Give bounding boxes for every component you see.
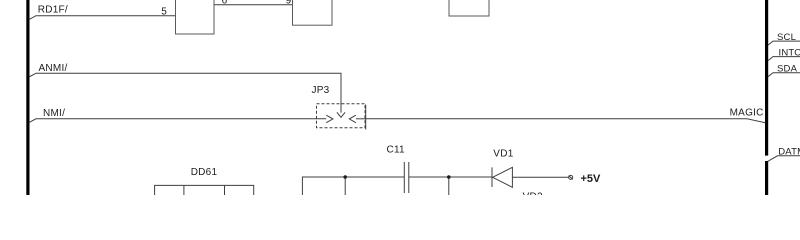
svg-text:MAGIC: MAGIC — [730, 108, 764, 119]
svg-text:+5V: +5V — [581, 173, 602, 185]
svg-text:SDA: SDA — [777, 64, 798, 75]
svg-text:C11: C11 — [387, 144, 406, 155]
svg-text:9: 9 — [286, 0, 292, 7]
svg-text:ANMI/: ANMI/ — [39, 63, 68, 74]
svg-text:NMI/: NMI/ — [43, 108, 65, 119]
svg-text:DATM: DATM — [778, 146, 800, 157]
svg-text:5: 5 — [161, 6, 167, 17]
svg-text:JP3: JP3 — [312, 85, 330, 96]
svg-text:VD2: VD2 — [523, 192, 543, 195]
svg-text:RD1F/: RD1F/ — [38, 4, 68, 15]
svg-text:VD1: VD1 — [493, 148, 513, 159]
svg-text:6: 6 — [222, 0, 228, 7]
svg-text:INTO: INTO — [779, 48, 800, 59]
svg-text:DD61: DD61 — [191, 167, 218, 178]
svg-text:SCL: SCL — [777, 32, 796, 43]
